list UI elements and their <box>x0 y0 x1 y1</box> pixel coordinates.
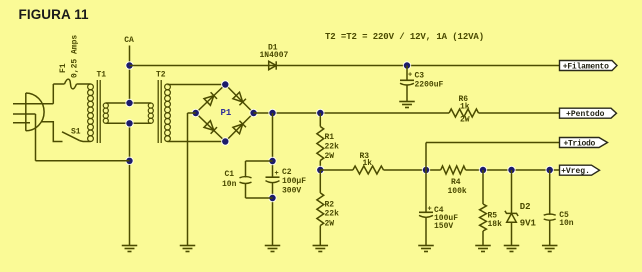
ground R2 <box>313 246 329 252</box>
node C5 <box>546 166 554 174</box>
transformer T2 secondary <box>165 84 171 141</box>
svg-text:S1: S1 <box>71 128 81 137</box>
bridge P1 diode upper-left <box>204 92 217 105</box>
label R5 <box>488 212 498 221</box>
note transformer spec <box>325 32 484 42</box>
bridge P1 diode lower-left <box>204 121 217 134</box>
ground C3 <box>399 102 415 108</box>
svg-text:T2: T2 <box>156 71 166 80</box>
svg-text:100µF: 100µF <box>282 177 306 186</box>
title FIGURA 11 <box>19 7 90 22</box>
label D1 <box>268 44 278 53</box>
svg-text:CA: CA <box>124 36 134 45</box>
label R6 <box>459 95 469 104</box>
label R1 22k <box>325 142 340 151</box>
diode D2 zener <box>505 170 518 246</box>
wire to S1 <box>42 122 63 142</box>
node D2 <box>507 166 515 174</box>
transformer T2 primary <box>148 103 153 123</box>
label R2 2W <box>325 219 335 228</box>
label R5 18k <box>488 220 503 229</box>
svg-text:1k: 1k <box>460 103 470 112</box>
net flag +Vreg <box>560 165 600 176</box>
transformer T1 core <box>97 80 100 143</box>
ground C2 <box>265 246 281 252</box>
wire T2 sec to bridge top <box>168 84 226 86</box>
label C2 <box>282 168 292 177</box>
label 1N4007 <box>260 51 289 60</box>
mains plug J1 <box>13 93 53 131</box>
resistor R3 <box>353 166 384 174</box>
label C4 100uF <box>434 214 458 223</box>
label P1 <box>221 108 232 118</box>
resistor R4 <box>441 166 466 174</box>
label C4 plus <box>428 206 432 214</box>
svg-text:2W: 2W <box>460 116 470 125</box>
svg-text:18k: 18k <box>488 220 503 229</box>
svg-text:9V1: 9V1 <box>520 219 537 229</box>
label C1 10n <box>222 180 237 189</box>
label S1 <box>71 128 81 137</box>
fuse F1 <box>65 79 91 89</box>
wire live <box>53 84 64 104</box>
svg-text:+Triodo: +Triodo <box>563 139 595 148</box>
node neutral junction <box>125 157 133 165</box>
svg-text:D2: D2 <box>520 202 531 212</box>
wire T2 sec to bridge bottom <box>168 141 226 143</box>
bridge P1 diode upper-right <box>233 92 246 105</box>
label C2 plus <box>275 170 279 178</box>
capacitor C1 <box>240 177 252 184</box>
label 2200uF <box>415 81 444 90</box>
svg-text:C3: C3 <box>415 72 425 81</box>
node secondary bottom <box>125 119 133 127</box>
svg-text:+Filamento: +Filamento <box>563 62 609 71</box>
svg-text:P1: P1 <box>221 108 232 118</box>
wire neutral vertical <box>129 123 131 245</box>
label C3 <box>415 72 425 81</box>
node CA secondary top <box>125 99 133 107</box>
net flag +Triodo <box>560 138 608 149</box>
wire mains neutral <box>36 114 130 161</box>
transformer T2 core <box>158 80 161 143</box>
label R4 100k <box>448 187 467 196</box>
svg-text:T1: T1 <box>97 71 107 80</box>
node C1 top <box>268 157 276 165</box>
svg-text:+: + <box>408 72 412 80</box>
svg-text:F1: F1 <box>59 63 68 73</box>
label C5 <box>559 211 569 220</box>
svg-text:FIGURA 11: FIGURA 11 <box>19 7 90 22</box>
svg-text:+Pentodo: +Pentodo <box>566 110 605 119</box>
net flag +Pentodo <box>560 108 617 119</box>
label C3 plus <box>408 72 412 80</box>
resistor R1 <box>317 113 324 170</box>
resistor R5 <box>480 170 487 246</box>
svg-text:2200uF: 2200uF <box>415 81 444 90</box>
wire secondary bottom rail <box>106 122 151 124</box>
label R4 <box>451 178 461 187</box>
svg-text:10n: 10n <box>559 219 574 228</box>
capacitor C3 <box>400 66 414 102</box>
label C4 <box>434 206 444 215</box>
bridge P1 frame <box>196 85 254 142</box>
svg-text:1k: 1k <box>363 159 373 168</box>
label R2 22k <box>325 210 340 219</box>
wire filter vertical <box>272 113 274 246</box>
svg-text:+: + <box>275 170 279 178</box>
svg-text:22k: 22k <box>325 142 340 151</box>
label R2 <box>325 201 335 210</box>
ground bridge <box>180 246 196 252</box>
wire triodo branch <box>426 143 560 171</box>
transformer T1 primary <box>88 84 94 141</box>
label C2 300V <box>282 187 301 196</box>
bridge P1 diode lower-right <box>233 121 246 134</box>
label R3 1k <box>363 159 373 168</box>
svg-text:1N4007: 1N4007 <box>260 51 289 60</box>
label R6 1k <box>460 103 470 112</box>
transformer T1 secondary <box>103 103 108 123</box>
svg-text:150V: 150V <box>434 222 453 231</box>
svg-text:300V: 300V <box>282 187 301 196</box>
diode D1 <box>269 61 277 69</box>
svg-text:R4: R4 <box>451 178 461 187</box>
ground D2 <box>504 246 520 252</box>
label C4 150V <box>434 222 453 231</box>
resistor R2 <box>317 170 324 246</box>
capacitor C5 <box>544 170 556 246</box>
ground C4 <box>418 246 434 252</box>
ground C5 <box>542 246 558 252</box>
wire bridge minus <box>188 113 196 246</box>
node CA top rail <box>125 61 133 69</box>
label C1 <box>225 170 235 179</box>
node bridge left <box>192 109 200 117</box>
svg-text:22k: 22k <box>325 210 340 219</box>
wire pentodo rail <box>254 112 560 114</box>
label R1 <box>325 133 335 142</box>
label R6 2W <box>460 116 470 125</box>
wire CA vertical <box>129 46 131 104</box>
label R1 2W <box>325 152 335 161</box>
node filter top <box>268 109 276 117</box>
svg-text:100k: 100k <box>448 187 467 196</box>
node C4 <box>422 166 430 174</box>
svg-text:R2: R2 <box>325 201 335 210</box>
node bridge right <box>249 109 257 117</box>
label T1 <box>97 71 107 80</box>
label CA <box>124 36 134 45</box>
wire C1 branch <box>246 161 273 198</box>
wire top rail <box>130 65 560 67</box>
node bridge top <box>221 80 229 88</box>
svg-text:2W: 2W <box>325 152 335 161</box>
svg-text:10n: 10n <box>222 180 237 189</box>
capacitor C2 <box>266 177 280 182</box>
node R1 R2 <box>316 166 324 174</box>
net flag +Filamento <box>560 61 618 72</box>
wire vreg rail c <box>466 169 560 171</box>
svg-text:0,25 Amps: 0,25 Amps <box>70 35 79 78</box>
svg-text:R1: R1 <box>325 133 335 142</box>
label F1 <box>59 63 68 73</box>
svg-text:+: + <box>428 206 432 214</box>
label C2 100uF <box>282 177 306 186</box>
label C5 10n <box>559 219 574 228</box>
svg-text:C1: C1 <box>225 170 235 179</box>
node C3 <box>403 61 411 69</box>
svg-text:2W: 2W <box>325 219 335 228</box>
label T2 <box>156 71 166 80</box>
ground R5 <box>475 246 491 252</box>
switch S1 <box>62 132 91 142</box>
svg-text:+Vreg.: +Vreg. <box>561 167 590 176</box>
label R3 <box>360 152 370 161</box>
label 0,25 Amps <box>70 35 79 78</box>
node C1 bottom <box>268 194 276 202</box>
label D2 9V1 <box>520 219 537 229</box>
wire secondary top rail <box>106 102 151 104</box>
svg-text:C2: C2 <box>282 168 292 177</box>
resistor R6 <box>449 109 478 117</box>
capacitor C4 <box>419 170 433 246</box>
label D2 <box>520 202 531 212</box>
svg-text:T2 =T2 = 220V / 12V, 1A (12VA): T2 =T2 = 220V / 12V, 1A (12VA) <box>325 32 484 42</box>
node R1 top <box>316 109 324 117</box>
node bridge bottom <box>221 137 229 145</box>
node R5 <box>479 166 487 174</box>
ground mains <box>122 246 138 252</box>
wire vreg rail b <box>384 169 441 171</box>
wire vreg rail a <box>320 169 353 171</box>
